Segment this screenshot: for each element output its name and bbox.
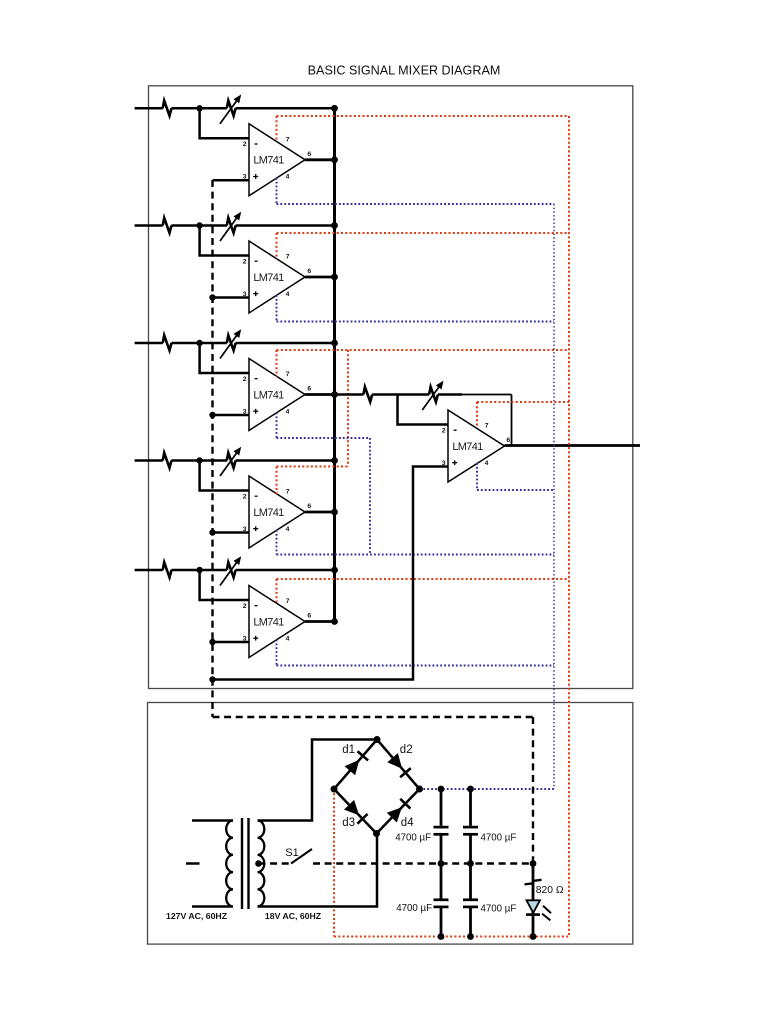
resistor (series break symbol) input 5 [163,562,172,577]
node output 1 [331,156,338,163]
svg-text:2: 2 [243,141,247,148]
bridge edge bottom-right [377,789,420,834]
potentiometer feedback R2 arrow [220,212,241,241]
diode d4 label [401,817,414,829]
svg-text:7: 7 [286,254,290,261]
wire to pin2 op-amp 1 [200,108,249,138]
potentiometer feedback R4 zigzag [227,453,236,468]
V+ line op-amp 2 [277,232,570,234]
node feedback-bus 5 [331,567,338,574]
bridge edge top-right [377,740,420,790]
node bridge bottom [373,830,380,837]
switch S1 blade [291,849,312,864]
wire input row 2 [135,224,335,227]
svg-text:2: 2 [243,493,247,500]
frame of power-supply section [148,703,633,945]
node pin3-common junction 3 [209,412,215,418]
V+ riser op-amp 2 [276,233,278,259]
resistor (series break symbol) mixer input [363,387,372,402]
V- riser op-amp 4 [276,530,278,555]
op-amp U1 labels [243,137,312,181]
bridge edge left-top [334,740,377,790]
V- rail bottom run to bridge [420,788,555,790]
V+ line op-amp 1 [277,115,570,117]
label 127V AC 60HZ [166,911,228,921]
label 18V AC 60HZ [265,911,322,921]
V- line op-amp 1 [277,203,555,205]
potentiometer feedback R2 zigzag [227,218,236,233]
capacitor C1/C3 bottom lead [440,908,443,937]
svg-text:2: 2 [442,427,446,434]
potentiometer feedback R6 zigzag [429,387,438,402]
diode d3 label [342,817,355,829]
node feedback-bus 4 [331,457,338,464]
V+ line op-amp 3 [277,349,570,351]
wire input row 4 [135,459,335,462]
transformer T1 primary top lead [192,819,233,822]
svg-text:LM741: LM741 [253,507,284,519]
bridge edge left-bottom [334,789,377,834]
wire input row 5 [135,569,335,572]
potentiometer feedback R3 zigzag [227,335,236,350]
wire output op-amp 2 [305,276,335,279]
node cap C1/C3 bottom [438,933,445,940]
resistor (series break symbol) input 1 [163,101,172,116]
node output 2 [331,274,338,281]
node output 4 [331,509,338,516]
potentiometer feedback R5 arrow [220,556,241,585]
svg-text:4: 4 [286,526,290,533]
svg-text:4700 µF: 4700 µF [396,903,432,914]
potentiometer feedback R6 arrow [422,381,443,410]
op-amp U3 LM741 triangle [249,359,305,431]
capacitor C1/C3 top plates [434,827,449,834]
wire to pin3 op-amp 4 [213,531,250,534]
wire to pin2 op-amp 3 [200,343,249,373]
potentiometer feedback R3 arrow [220,329,241,358]
svg-text:LM741: LM741 [253,616,284,628]
svg-text:LM741: LM741 [452,441,483,453]
diode d1 label [342,744,355,756]
capacitor C1/C3 bottom plates [434,900,449,907]
svg-text:BASIC SIGNAL MIXER DIAGRAM: BASIC SIGNAL MIXER DIAGRAM [308,63,501,77]
svg-text:6: 6 [307,268,311,275]
op-amp U6 LM741 triangle [448,410,505,482]
wire feedback drop U6 [511,395,513,446]
svg-text:4: 4 [286,291,290,298]
svg-text:6: 6 [307,613,311,620]
V+ line op-amp 4 [277,466,349,468]
node bridge right [416,786,423,793]
op-amp U5 LM741 triangle [249,586,305,658]
V+ rail (red dotted) [568,116,570,937]
wire mixer input row [335,393,512,396]
potentiometer feedback R1 arrow [220,95,241,124]
transformer T1 primary bottom lead [192,905,233,908]
node output 5 [331,618,338,625]
common dashed vertical [211,180,213,717]
AC input stub [186,862,200,865]
V+ rail bottom run [334,936,569,938]
V+ rail left riser to bridge [333,789,335,937]
svg-text:4700 µF: 4700 µF [395,833,431,844]
wire output op-amp 4 [305,511,335,514]
transformer T1 secondary coil [258,821,265,907]
LED D5 cathode bar [526,913,540,916]
LED D5 triangle [527,900,541,913]
potentiometer feedback R5 zigzag [227,562,236,577]
common dashed drop to capacitors [532,717,534,864]
svg-text:d1: d1 [342,744,355,756]
capacitor C2/C4 top lead [469,789,472,826]
svg-text:3: 3 [243,526,247,533]
svg-text:2: 2 [243,376,247,383]
capacitor C4 value [481,904,517,915]
node output 3 [331,391,338,398]
V- line op-amp 5 [277,665,555,667]
op-amp U1 LM741 triangle [249,124,305,196]
capacitor C3 value [396,903,432,914]
wire input row 3 [135,342,335,345]
capacitor C1/C3 middle lead [440,836,443,899]
node cap C2/C4 top [467,786,474,793]
svg-text:3: 3 [243,408,247,415]
resistor (series break symbol) input 2 [163,218,172,233]
V+ riser U6 [476,402,478,428]
svg-text:7: 7 [286,489,290,496]
wire output op-amp 3 [305,393,335,396]
resistor 820 ohm symbol [525,880,542,885]
wire to pin3 op-amp 3 [213,414,250,417]
V+ riser op-amp 1 [276,116,278,142]
node LED bottom [530,933,537,940]
svg-text:2: 2 [243,258,247,265]
node pin3-common junction 4 [209,529,215,535]
V- line op-amp 4 [277,554,555,556]
svg-text:d4: d4 [401,817,414,829]
svg-text:7: 7 [286,137,290,144]
svg-text:d3: d3 [342,817,355,829]
svg-text:LM741: LM741 [253,389,284,401]
transformer T1 secondary top lead [258,740,378,821]
node pin3-common junction 2 [209,294,215,300]
op-amp U4 LM741 triangle [249,476,305,548]
wire output op-amp 5 [305,620,335,623]
resistor (series break symbol) input 3 [163,335,172,350]
wire input row 1 [135,107,335,110]
node feedback-bus 1 [331,105,338,112]
wire to pin2 op-amp 4 [200,461,249,491]
svg-text:820 Ω: 820 Ω [536,885,564,896]
capacitor C2/C4 bottom lead [469,908,472,937]
wire to pin3 op-amp U6 [213,467,449,680]
transformer T1 core [242,818,249,909]
op-amp U5 labels [243,598,312,642]
node pin3-common junction 5 [209,639,215,645]
potentiometer feedback R4 arrow [220,447,241,476]
node pin3 feed junction [209,676,215,682]
diode d3 [344,800,368,824]
wire output op-amp 1 [305,158,335,161]
svg-text:18V AC, 60HZ: 18V AC, 60HZ [265,911,322,921]
V+ jog op-amp 4 [347,350,349,467]
svg-text:LM741: LM741 [253,272,284,284]
common dashed center-tap run [259,862,534,864]
diode d2 label [400,744,413,756]
svg-text:4: 4 [485,460,489,467]
capacitor C2/C4 bottom plates [463,900,478,907]
svg-text:S1: S1 [285,847,298,859]
svg-text:6: 6 [307,503,311,510]
common dashed horizontal [213,716,534,718]
node feedback-bus 3 [331,340,338,347]
svg-text:2: 2 [243,603,247,610]
V- line op-amp 2 [277,321,555,323]
node input junction 2 [196,222,202,228]
svg-text:7: 7 [286,598,290,605]
op-amp U2 labels [243,254,312,298]
transformer T1 primary coil [226,821,233,907]
diode d1 [345,751,368,775]
resistor 820 ohm value [536,885,564,896]
svg-text:3: 3 [442,460,446,467]
svg-text:3: 3 [243,635,247,642]
node input junction 3 [196,340,202,346]
op-amp U6 labels [442,423,511,467]
node input junction 1 [196,105,202,111]
svg-text:3: 3 [243,291,247,298]
V- line U6 [477,489,554,491]
wire output U6 [505,444,641,447]
svg-text:6: 6 [506,437,510,444]
resistor (series break symbol) input 4 [163,453,172,468]
svg-text:7: 7 [286,371,290,378]
svg-text:4: 4 [286,635,290,642]
node cap C2/C4 mid [467,860,474,867]
diode d2 [387,753,410,777]
diode d4 [387,799,411,823]
V- riser op-amp 2 [276,295,278,322]
svg-text:6: 6 [307,151,311,158]
capacitor C2/C4 middle lead [469,836,472,899]
V+ line op-amp 5 [277,578,570,580]
wire to pin2 op-amp 5 [200,570,249,600]
node bridge left [331,786,338,793]
svg-text:LM741: LM741 [253,155,284,167]
switch S1 label [285,847,298,859]
node center tap [255,860,262,867]
node cap C1/C3 top [438,786,445,793]
title [308,63,501,77]
V- riser op-amp 5 [276,640,278,666]
V+ line U6 [477,401,569,403]
capacitor C1/C3 top lead [440,789,443,826]
node input junction 4 [196,457,202,463]
LED D5 light marks [542,906,551,921]
wire to pin3 op-amp 1 [213,179,250,182]
op-amp U3 labels [243,371,312,415]
potentiometer feedback R1 zigzag [227,101,236,116]
svg-text:4700 µF: 4700 µF [481,833,517,844]
node cap C2/C4 bottom [467,933,474,940]
V+ riser op-amp 4 [276,467,278,495]
V- rail (blue dotted) [553,204,555,789]
V+ riser op-amp 3 [276,350,278,377]
svg-text:3: 3 [243,174,247,181]
capacitor C2/C4 top plates [463,827,478,834]
node input junction 5 [196,567,202,573]
node bridge top [374,736,381,743]
frame of amplifier section [149,86,633,689]
V- line op-amp 3 [277,437,371,439]
capacitor C1 value [395,833,431,844]
wire to pin3 op-amp 5 [213,641,250,644]
wire LED branch [532,864,535,937]
node LED branch top [530,860,537,867]
V+ riser op-amp 5 [276,579,278,604]
node feedback-bus 2 [331,222,338,229]
svg-text:7: 7 [485,423,489,430]
svg-text:127V AC, 60HZ: 127V AC, 60HZ [166,911,228,921]
bus vertical (outputs/feedback) [333,108,336,621]
svg-text:6: 6 [307,386,311,393]
V- riser op-amp 1 [276,178,278,204]
op-amp U2 LM741 triangle [249,241,305,313]
svg-text:4: 4 [286,174,290,181]
wire to pin2 op-amp 2 [200,226,249,256]
transformer T1 secondary bottom lead [258,834,378,907]
V- riser op-amp 3 [276,413,278,439]
capacitor C2 value [481,833,517,844]
V- jog op-amp 3 [369,438,371,555]
V- riser U6 [476,463,478,490]
wire to pin2 op-amp U6 [398,395,449,425]
svg-text:4: 4 [286,408,290,415]
svg-text:d2: d2 [400,744,413,756]
wire to pin3 op-amp 2 [213,296,250,299]
op-amp U4 labels [243,489,312,533]
node cap C1/C3 mid [438,860,445,867]
svg-text:4700 µF: 4700 µF [481,904,517,915]
